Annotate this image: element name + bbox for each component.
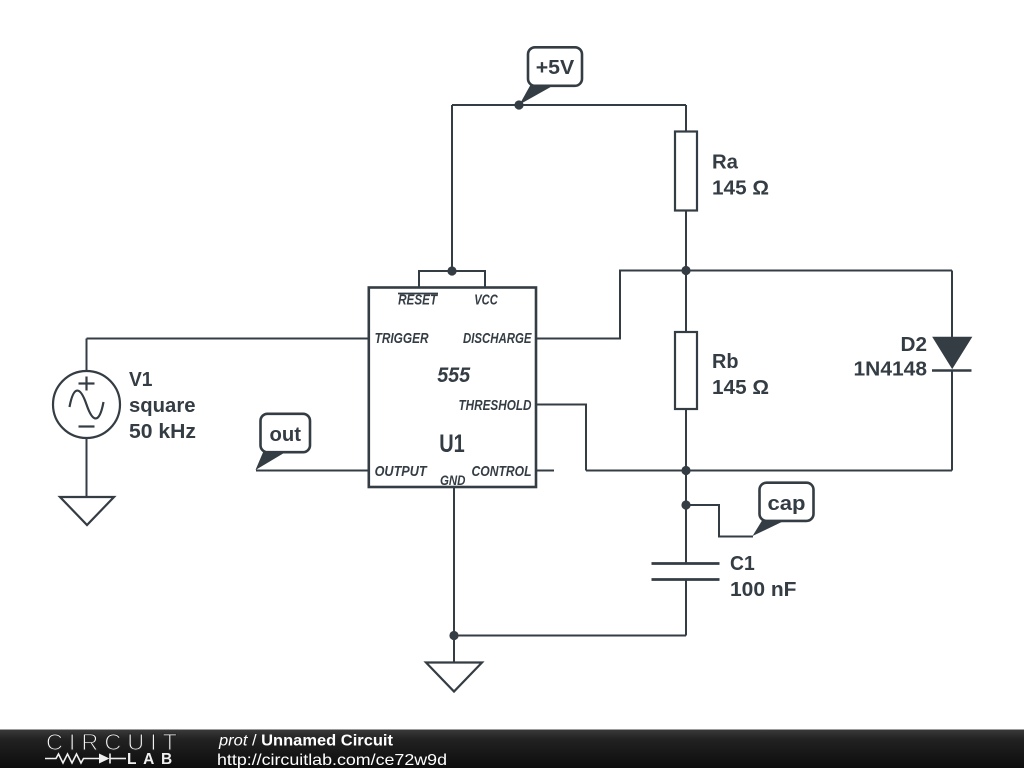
node +5V flag bbox=[520, 47, 583, 104]
wire Rb top lead bbox=[685, 271, 687, 333]
value label D2 1N4148 bbox=[854, 334, 928, 381]
wire RESET/VCC bracket bbox=[419, 271, 485, 288]
wire Ra bottom lead bbox=[685, 211, 687, 272]
wire cap flag tap bbox=[686, 505, 753, 537]
svg-text:VCC: VCC bbox=[474, 292, 498, 309]
svg-text:CONTROL: CONTROL bbox=[472, 463, 532, 480]
node out flag bbox=[256, 414, 311, 470]
svg-text:U1: U1 bbox=[439, 430, 465, 458]
value label V1 square 50 kHz bbox=[129, 369, 196, 443]
wire V1 to TRIGGER bbox=[87, 338, 369, 340]
junction node +5V tap bbox=[514, 100, 523, 109]
svg-text:prot / Unnamed Circuit: prot / Unnamed Circuit bbox=[218, 733, 394, 750]
svg-text:Ra: Ra bbox=[712, 152, 739, 174]
svg-text:TRIGGER: TRIGGER bbox=[375, 330, 429, 347]
diode D2 symbol bbox=[932, 338, 972, 371]
wire top rail +5V bbox=[452, 104, 686, 106]
wire THRESHOLD stub bbox=[536, 405, 586, 471]
pin label RESET (pin 4) with overline bbox=[398, 292, 439, 309]
wire Rb bottom node to C1 top bbox=[685, 471, 687, 564]
node cap flag bbox=[753, 483, 814, 536]
wire D2 anode lead bbox=[951, 271, 953, 339]
svg-text:1N4148: 1N4148 bbox=[854, 359, 928, 381]
wire GND pin down to ground bbox=[453, 487, 455, 663]
resistor Ra body bbox=[675, 132, 697, 211]
wire CONTROL stub bbox=[536, 470, 554, 472]
svg-text:50 kHz: 50 kHz bbox=[129, 421, 196, 443]
wire D2 cathode lead bbox=[951, 371, 953, 471]
svg-text:555: 555 bbox=[437, 364, 470, 387]
ground symbol below V1 bbox=[60, 497, 114, 525]
wire V1 top lead bbox=[86, 339, 88, 372]
svg-text:cap: cap bbox=[768, 493, 806, 515]
wire V1 bottom lead to ground bbox=[86, 438, 88, 497]
wire OUTPUT to out flag bbox=[256, 470, 369, 472]
wire Ra bottom node to D2 top bbox=[686, 270, 952, 272]
wire left drop from +5V rail to IC bracket bbox=[451, 105, 453, 271]
junction node RESET/VCC bracket bbox=[447, 266, 456, 275]
svg-text:C1: C1 bbox=[730, 553, 755, 575]
svg-text:OUTPUT: OUTPUT bbox=[375, 463, 429, 480]
svg-text:145 Ω: 145 Ω bbox=[712, 178, 769, 200]
svg-text:+5V: +5V bbox=[536, 57, 575, 79]
svg-text:LAB: LAB bbox=[127, 751, 179, 768]
svg-text:D2: D2 bbox=[901, 334, 928, 356]
CircuitLab logo wordmark bbox=[46, 729, 177, 755]
wire Ra top lead bbox=[685, 105, 687, 132]
value label Ra 145 ohm bbox=[712, 152, 769, 200]
value label C1 100 nF bbox=[730, 553, 797, 601]
wire DISCHARGE to Ra bottom node bbox=[536, 271, 686, 339]
junction node cap tap bbox=[681, 500, 690, 509]
svg-text:100 nF: 100 nF bbox=[730, 579, 797, 601]
wire threshold row to D2 bottom bbox=[586, 470, 952, 472]
wire C1 bottom to GND pin bbox=[454, 635, 686, 637]
ground symbol below U1 GND bbox=[426, 663, 482, 692]
svg-text:Rb: Rb bbox=[712, 351, 739, 373]
svg-text:THRESHOLD: THRESHOLD bbox=[459, 397, 532, 414]
op-amp U1 555 timer body bbox=[369, 288, 536, 488]
junction node Rb bottom / threshold bbox=[681, 466, 690, 475]
capacitor C1 plates bbox=[652, 564, 720, 580]
value label Rb 145 ohm bbox=[712, 351, 769, 399]
svg-text:GND: GND bbox=[440, 472, 466, 488]
svg-text:DISCHARGE: DISCHARGE bbox=[463, 330, 532, 347]
CircuitLab logo resistor-diode glyph bbox=[45, 754, 126, 764]
svg-text:square: square bbox=[129, 395, 196, 417]
svg-text:out: out bbox=[270, 424, 302, 446]
svg-text:http://circuitlab.com/ce72w9d: http://circuitlab.com/ce72w9d bbox=[217, 752, 447, 768]
voltage source V1 symbol bbox=[53, 371, 120, 438]
svg-text:145 Ω: 145 Ω bbox=[712, 377, 769, 399]
resistor Rb body bbox=[675, 332, 697, 409]
junction node GND rail bbox=[449, 631, 458, 640]
junction node Ra bottom / discharge bbox=[681, 266, 690, 275]
wire C1 bottom lead bbox=[685, 580, 687, 636]
wire Rb bottom lead bbox=[685, 409, 687, 471]
svg-text:V1: V1 bbox=[129, 369, 153, 391]
